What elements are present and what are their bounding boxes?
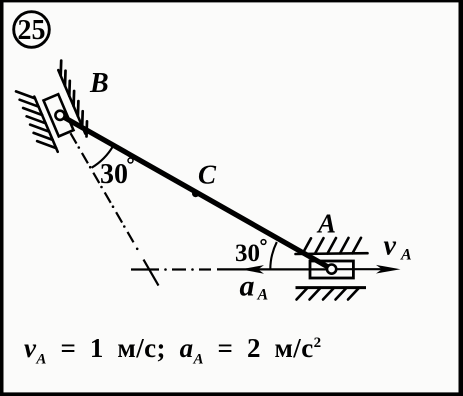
acceleration arrow aA head [241,265,265,274]
svg-text:a: a [240,270,255,303]
svg-text:A: A [257,287,269,304]
svg-text:B: B [89,68,109,99]
point C dot [192,190,199,197]
slider A [310,261,353,278]
svg-text:30: 30 [235,240,260,267]
pin B [55,111,64,120]
guide A bottom wall hatching [297,288,360,300]
guide B left wall hatching [16,91,56,148]
dash-dot guide axis through B [71,133,159,285]
svg-text:v: v [384,231,397,262]
label vA [384,231,413,264]
guide A top wall hatching [303,238,362,254]
given values formula [24,333,322,368]
guide B left wall [34,97,57,152]
acceleration arrow aA shaft [217,268,332,270]
svg-text:A: A [400,247,412,264]
guide A top wall [296,252,368,255]
pin A [327,265,336,274]
rod AB [60,115,332,269]
svg-text:30: 30 [100,159,128,190]
badge circle 25 [14,12,50,48]
velocity arrow vA shaft [332,268,382,270]
svg-text:C: C [198,160,217,190]
horizontal dash-dot centerline [131,268,211,271]
label 30 deg at A [235,240,266,267]
velocity arrow vA head [376,265,401,274]
svg-text:25: 25 [18,15,46,46]
guide A bottom wall [296,286,367,289]
label 30 deg at B [100,158,133,190]
angle arc 30 at A [270,242,277,269]
label aA [240,270,269,304]
slider B [44,94,74,136]
guide B right wall hatching [61,61,87,137]
angle arc 30 at B [92,146,113,168]
guide B right wall [58,70,85,134]
svg-text:A: A [316,209,336,239]
